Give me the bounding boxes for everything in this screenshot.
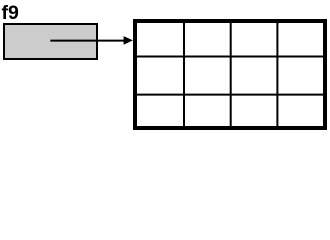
svg-text:f9: f9 [2,2,19,24]
column divider 1 [183,22,185,127]
row divider 1 [134,56,326,58]
row divider 2 [134,94,326,96]
wire (arrow shaft) [50,40,126,42]
column divider 3 [276,22,278,127]
column divider 2 [230,22,232,127]
array table outer border [135,21,325,128]
arrowhead [124,36,133,45]
variable box f9 [4,24,97,59]
